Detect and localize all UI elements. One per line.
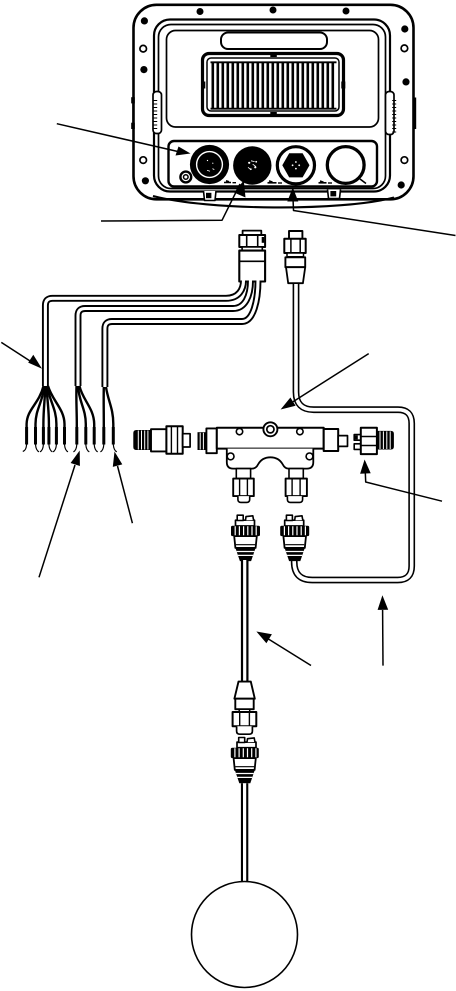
wire group 2 tips (77, 427, 94, 445)
cable plug barrel (235, 699, 253, 710)
recessed panel outline (167, 31, 379, 128)
wire group 2 bare ends (73, 445, 97, 452)
display unit bottom sag line (153, 196, 394, 207)
small vent hole (180, 172, 191, 183)
transducer connector cone (235, 770, 255, 783)
label plate above vent (221, 33, 327, 50)
transducer connector body (234, 758, 256, 770)
network drop cable connector at device (284, 231, 305, 283)
wire group 1 tips (27, 427, 65, 445)
wire group 3 bare ends (100, 445, 116, 452)
vent rib rails (211, 62, 337, 108)
tee left terminator: threads (133, 430, 151, 450)
tee leg hole left (227, 453, 234, 460)
right edge slot (413, 98, 416, 130)
callout arrow to power cable (1, 342, 42, 368)
callout arrow to panel left (57, 124, 191, 156)
transducer connector ribbed ring (231, 748, 259, 758)
panel label text 2 (268, 181, 277, 183)
tee bottom port left tip (238, 496, 250, 502)
cable plug nut (233, 712, 257, 726)
back plate outer line (154, 20, 390, 192)
connector panel (169, 141, 378, 187)
callout arrow up at backbone bottom (378, 595, 389, 665)
callout arrow to long cable (256, 632, 311, 666)
power cable tube 3 (105, 281, 258, 388)
drop connector on tee right port (280, 515, 309, 561)
cable plug male cone (234, 682, 254, 699)
display unit outer case (134, 5, 414, 200)
backbone cable end connector latch (354, 435, 361, 441)
power cable tube 2 (78, 281, 251, 387)
tee bottom port right neck (289, 469, 303, 479)
screws right column (401, 45, 408, 52)
tee right end nut (324, 429, 339, 451)
transducer connector tab (237, 742, 256, 748)
callout arrow to tee center (281, 354, 369, 410)
tee left terminator: nut (166, 426, 182, 454)
transducer ball (192, 882, 298, 988)
connector 4 blank socket (327, 147, 364, 184)
tee right end tip (338, 436, 347, 447)
backbone cable end connector body (361, 428, 377, 454)
callout arrow to connector 3 (287, 188, 455, 236)
wire group 3 splay (104, 387, 114, 445)
connector 2 SONAR socket (233, 146, 271, 184)
tee bar hole right (297, 428, 303, 434)
callout arrow to wire group 2 (39, 451, 80, 578)
transducer cable (241, 783, 248, 883)
power cable tube 1 (outer) (45, 281, 243, 387)
wire group 1 splay (27, 386, 65, 445)
tee bottom port left nut (233, 479, 254, 497)
tee leg hole right (306, 453, 313, 460)
callout arrow to wire group 3 (113, 452, 133, 524)
tee bottom port right nut (286, 479, 307, 497)
tee bottom port left neck (236, 469, 250, 479)
wire group 1 bare ends (23, 445, 68, 452)
tee left port threads (198, 432, 207, 450)
drop connector on tee left port (231, 515, 260, 561)
left edge slot (131, 97, 135, 129)
tee body bar (217, 428, 324, 449)
tee bar hole left (236, 428, 242, 434)
tee bottom port right tip (287, 496, 302, 502)
panel label text 1 (224, 181, 231, 183)
tee center boss (263, 422, 277, 436)
left clip (153, 92, 162, 134)
tee left terminator: collar (151, 429, 166, 451)
vent ribs (213, 62, 333, 108)
screws top row (141, 7, 409, 33)
panel label text 3 (319, 181, 327, 183)
panel corner tick (360, 179, 366, 184)
tee body lower profile (227, 449, 313, 469)
network backbone cable loop (294, 284, 412, 580)
connector 1 POWER socket (190, 145, 229, 184)
bottom tab right (328, 190, 341, 199)
screws left column (140, 45, 147, 52)
power cable connector at device (239, 231, 265, 282)
tee left port nut (206, 428, 216, 453)
callout arrow to backbone connector (360, 460, 442, 502)
cable plug tip (237, 726, 253, 734)
connector 3 NETWORK socket (277, 147, 314, 184)
long transducer cable (241, 560, 249, 682)
callout arrow to connector 2 (101, 180, 246, 221)
wire group 2 splay (76, 386, 94, 445)
vent frame inner (207, 58, 339, 111)
wire group 3 tips (104, 427, 114, 445)
backbone cable end connector threads (377, 431, 394, 450)
back plate inner line (159, 25, 386, 189)
bottom tab left (204, 191, 217, 201)
vent tabs (201, 52, 345, 117)
cable plug neck (239, 709, 250, 712)
right clip (386, 92, 395, 135)
tee left terminator: tip (183, 434, 190, 447)
vent frame outer (203, 54, 344, 116)
power cable tube cores (45, 281, 258, 388)
